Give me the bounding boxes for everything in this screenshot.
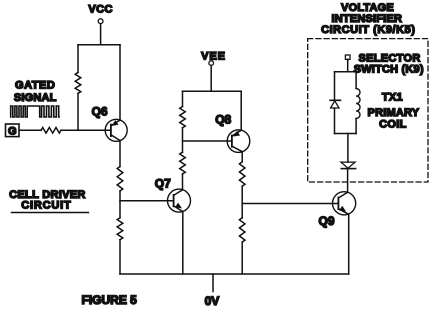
wire Q8 emitter down (241, 152, 243, 162)
svg-text:0V: 0V (205, 294, 220, 308)
svg-text:SWITCH (K9): SWITCH (K9) (354, 64, 424, 76)
svg-text:VOLTAGE: VOLTAGE (341, 2, 394, 14)
wire rail to left resistor (182, 91, 184, 106)
svg-text:PRIMARY: PRIMARY (368, 107, 420, 119)
diode series (points down) (341, 162, 356, 169)
wire Q7 emitter to 0V rail (182, 212, 184, 275)
wire Q6 collector down (119, 141, 121, 167)
gated signal waveform (11, 106, 60, 117)
selector switch terminal K9 (345, 55, 350, 59)
wire VCC top rail (78, 44, 120, 46)
wire node to Q8 base (183, 140, 232, 142)
svg-text:COIL: COIL (379, 118, 406, 130)
resistor Q8 emitter lower (239, 218, 245, 242)
wire rail to pull-up resistor (77, 45, 79, 73)
svg-text:GATED: GATED (15, 80, 55, 92)
power terminal VCC (88, 3, 112, 23)
voltage intensifier circuit label (321, 2, 415, 36)
wire resistor to 0V rail (241, 242, 243, 274)
cell driver circuit label (9, 189, 88, 213)
resistor VEE left lower (180, 152, 186, 174)
svg-text:VCC: VCC (88, 3, 112, 15)
wire VEE drop (210, 65, 212, 91)
0V rail (120, 273, 349, 275)
wire terminal to loop (347, 59, 349, 71)
wire loop top (335, 71, 357, 73)
resistor base pull-up (75, 72, 81, 93)
diode flyback (points up) (330, 100, 340, 108)
wire 0V stub (212, 274, 214, 292)
wire through Q8-base node (182, 128, 184, 152)
resistor Q8 emitter upper (239, 162, 245, 186)
wire node to Q7 base (120, 200, 174, 202)
svg-text:TX1: TX1 (382, 92, 403, 104)
wire Q8 top to VEE rail (240, 91, 242, 130)
power terminal VEE (201, 50, 226, 65)
input terminal G (6, 124, 20, 138)
wire loop bottom (335, 133, 357, 135)
svg-text:Q7: Q7 (155, 176, 171, 190)
resistor VEE left upper (180, 107, 186, 128)
voltage intensifier circuit boundary (dashed box) (308, 39, 428, 182)
wire between divider resistors (119, 191, 121, 218)
inductor TX1 primary coil (356, 89, 360, 119)
wire resistor to base junction (77, 93, 79, 130)
wire Q9 collector up to diode (347, 169, 349, 193)
wire resistor to Q7 collector (182, 174, 184, 190)
wire loop left upper (334, 72, 336, 100)
wire G to series resistor (19, 129, 41, 131)
wire node to Q9 base (242, 203, 338, 205)
wire divider to 0V rail (119, 240, 121, 274)
svg-text:FIGURE 5: FIGURE 5 (82, 293, 138, 307)
selector switch label (354, 53, 424, 76)
svg-text:Q9: Q9 (319, 214, 335, 228)
svg-text:CIRCUIT: CIRCUIT (21, 199, 71, 211)
svg-text:Q6: Q6 (92, 104, 108, 118)
transistor Q7 (155, 176, 191, 212)
svg-text:SIGNAL: SIGNAL (14, 92, 57, 104)
wire Q9 emitter to 0V rail (348, 214, 350, 274)
wire resistor to Q6 base (junction with pull-up) (61, 129, 111, 131)
gated signal label (14, 80, 57, 105)
wire VCC drop (100, 24, 102, 45)
svg-text:CIRCUIT (K9/K5): CIRCUIT (K9/K5) (321, 24, 415, 36)
resistor gated-signal series (41, 128, 61, 134)
wire loop right upper (355, 72, 357, 89)
wire loop to series diode (347, 134, 349, 163)
wire rail down to Q6 emitter (119, 45, 121, 121)
transistor Q9 (319, 192, 356, 228)
transistor Q8 (215, 113, 250, 153)
svg-text:VEE: VEE (201, 50, 226, 62)
wire loop left lower (334, 108, 336, 134)
wire loop right lower (355, 118, 357, 133)
svg-text:Q8: Q8 (215, 113, 231, 127)
TX1 primary coil label (368, 92, 420, 131)
transistor Q6 (92, 104, 128, 141)
wire through Q9-base node (241, 186, 243, 218)
svg-text:G: G (8, 126, 17, 138)
resistor Q6 collector lower (117, 218, 123, 240)
wire VEE rail (183, 90, 242, 92)
resistor Q6 collector upper (117, 167, 123, 192)
